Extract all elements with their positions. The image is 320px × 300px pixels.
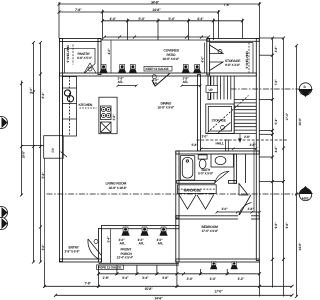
svg-text:3'-2": 3'-2" xyxy=(238,277,245,281)
porch post 2 xyxy=(140,227,148,236)
svg-text:3'-0": 3'-0" xyxy=(222,207,229,211)
right dim line 1 xyxy=(272,38,274,288)
svg-text:8'-4": 8'-4" xyxy=(41,92,45,99)
wardrobe box xyxy=(178,185,217,194)
dim row B xyxy=(59,11,219,13)
extension line right xyxy=(259,2,261,38)
svg-text:3'-8": 3'-8" xyxy=(274,46,278,53)
kitchen sink circles xyxy=(64,90,70,96)
svg-text:AFL: AFL xyxy=(120,242,126,246)
svg-text:9'-8" X 3'-8": 9'-8" X 3'-8" xyxy=(225,63,241,67)
ticks row D xyxy=(103,36,210,39)
entry door arc xyxy=(88,239,99,259)
island counter xyxy=(99,97,117,134)
svg-text:9'-8": 9'-8" xyxy=(274,222,278,229)
right dim line 2 xyxy=(283,38,285,297)
svg-text:KEEP 12 GAUGE: KEEP 12 GAUGE xyxy=(146,67,169,71)
svg-text:5'-4": 5'-4" xyxy=(107,236,111,243)
svg-text:34'-8": 34'-8" xyxy=(155,296,164,300)
patio door checkmark xyxy=(152,73,170,86)
svg-text:16'-8" X 9'-8": 16'-8" X 9'-8" xyxy=(158,106,175,110)
left marker 3 xyxy=(0,218,8,230)
bath south wall xyxy=(177,181,215,184)
ticks left dims xyxy=(20,82,23,197)
pantry shelving dashes xyxy=(72,45,74,65)
patio post 1 xyxy=(118,65,126,74)
stove box xyxy=(101,106,112,120)
counter divisions xyxy=(63,88,77,119)
pantry door label xyxy=(88,67,92,71)
svg-text:18'-8" X 8'-8": 18'-8" X 8'-8" xyxy=(163,57,180,61)
storage dim line left xyxy=(204,43,206,73)
burners xyxy=(101,107,105,111)
svg-text:3'-4": 3'-4" xyxy=(122,276,129,280)
porch inner dim line xyxy=(110,229,112,264)
ticks right dim1 xyxy=(271,37,274,261)
bath chase wall xyxy=(245,154,247,183)
svg-text:7'-8": 7'-8" xyxy=(75,8,82,12)
understair door circle xyxy=(221,126,225,130)
bifold doors xyxy=(179,195,214,209)
svg-text:34'-8": 34'-8" xyxy=(298,242,302,250)
left wall xyxy=(60,39,63,262)
stair right flight treads xyxy=(234,100,256,131)
svg-text:AFL: AFL xyxy=(183,80,189,84)
svg-text:7'-8": 7'-8" xyxy=(224,3,231,7)
stair dashed up line xyxy=(208,96,249,133)
bedroom window 2 xyxy=(231,262,238,270)
kitchen counter left xyxy=(63,77,77,137)
right leader y181 xyxy=(259,181,283,183)
svg-text:9'-0": 9'-0" xyxy=(29,87,33,94)
bath closet wall xyxy=(234,154,237,183)
extension line x213 xyxy=(213,19,215,41)
bedroom bottom wall xyxy=(176,259,259,262)
text keep gauge box xyxy=(144,66,172,71)
svg-text:AFL: AFL xyxy=(118,80,124,84)
oven box with X xyxy=(101,122,112,133)
vanity basin xyxy=(215,156,226,164)
porch post 1 xyxy=(121,227,129,236)
right leader y134 xyxy=(259,133,272,135)
kitchen arrow dashes xyxy=(80,107,97,109)
svg-text:26'-8": 26'-8" xyxy=(298,117,302,125)
extension line x188 xyxy=(188,19,190,41)
patio post 3 xyxy=(182,65,190,74)
svg-text:3'-0": 3'-0" xyxy=(202,135,209,139)
patio post 2 xyxy=(129,65,137,74)
svg-text:A302: A302 xyxy=(301,92,308,96)
svg-text:9'-8": 9'-8" xyxy=(285,222,289,229)
storage top wall xyxy=(207,39,259,42)
right leader y130 xyxy=(259,130,272,132)
left closet bump xyxy=(44,136,67,159)
ticks row B xyxy=(58,11,221,14)
svg-text:4'-0": 4'-0" xyxy=(201,56,205,63)
stair left wall xyxy=(208,76,211,100)
ticks right dim2 xyxy=(282,37,285,261)
storage inner lines xyxy=(210,43,253,74)
svg-text:9' SHELVING: 9' SHELVING xyxy=(66,45,70,63)
extension line x158 xyxy=(157,19,159,41)
bottom ext lines xyxy=(44,263,46,288)
bedroom door leaf xyxy=(239,195,251,217)
right leader y157 xyxy=(259,156,272,158)
tick marks top xyxy=(58,3,262,39)
stair top flight treads xyxy=(210,76,230,100)
bottom row 2 xyxy=(45,285,293,287)
ticks row A xyxy=(58,3,262,6)
svg-text:7'-8": 7'-8" xyxy=(85,282,92,286)
svg-text:KITCHEN: KITCHEN xyxy=(79,103,93,107)
bedroom dim ext line xyxy=(253,142,255,213)
closet leader line xyxy=(22,145,44,147)
porch post 3 xyxy=(159,227,167,236)
extension line x242 xyxy=(242,19,244,39)
svg-text:24'-8": 24'-8" xyxy=(153,8,162,12)
storage left wall xyxy=(207,39,210,75)
ticks bottom row2 xyxy=(43,285,294,288)
right top connector xyxy=(260,37,284,39)
bottom row 1 xyxy=(99,273,260,275)
dashdot line y89 xyxy=(231,88,300,90)
extension line left xyxy=(58,2,60,39)
post labels xyxy=(118,77,190,86)
stair inner wall xyxy=(233,76,235,134)
ticks right dim3 xyxy=(295,44,298,298)
bedroom window 1 xyxy=(210,262,217,270)
left dim line inner xyxy=(33,43,35,263)
patio post dim line left xyxy=(117,85,138,88)
chase door leaf xyxy=(239,184,248,196)
svg-text:5'-0" X 9'-8": 5'-0" X 9'-8" xyxy=(198,172,214,176)
patio top edge xyxy=(101,39,209,41)
svg-text:17'-0": 17'-0" xyxy=(285,112,289,120)
svg-text:5'-4": 5'-4" xyxy=(139,17,146,21)
vanity xyxy=(211,154,234,167)
ticks bottom row1 xyxy=(97,272,261,275)
dim row C xyxy=(103,20,243,22)
svg-text:LIVING ROOM: LIVING ROOM xyxy=(106,182,127,186)
svg-text:4'-0": 4'-0" xyxy=(107,48,111,55)
svg-text:15'-8": 15'-8" xyxy=(145,287,154,291)
pantry top wall xyxy=(60,39,102,42)
svg-text:17'-0" X 9'-8": 17'-0" X 9'-8" xyxy=(202,229,219,233)
bath left wall xyxy=(176,151,179,218)
svg-text:13'-4" X 5'-4": 13'-4" X 5'-4" xyxy=(117,256,134,260)
dim row A overall 34'-8" xyxy=(59,3,260,5)
svg-text:POPE 12 GAUGE: POPE 12 GAUGE xyxy=(98,266,121,270)
bottom row 3 xyxy=(56,294,293,296)
bottom-left wall xyxy=(60,259,102,262)
svg-text:1'-8": 1'-8" xyxy=(103,276,110,280)
hall/bath wall xyxy=(176,151,259,154)
text pope gauge box xyxy=(97,265,124,270)
left marker 2 xyxy=(0,207,8,219)
svg-text:2'-8": 2'-8" xyxy=(248,207,255,211)
svg-text:AFL: AFL xyxy=(153,82,159,86)
svg-text:A302: A302 xyxy=(302,197,309,201)
right leader y99 xyxy=(259,99,272,101)
wardrobe rod dash xyxy=(178,188,217,190)
right diamond marker A xyxy=(298,186,313,201)
svg-text:3'-8" X 6'-8": 3'-8" X 6'-8" xyxy=(65,250,81,254)
ticks bottom row3 xyxy=(54,294,294,297)
extension line x102 xyxy=(102,10,104,41)
storage door V xyxy=(210,45,223,71)
top dim texts xyxy=(75,1,230,21)
dashdot line y194 xyxy=(47,193,300,195)
svg-text:4'-4": 4'-4" xyxy=(197,17,204,21)
left marker 1 xyxy=(0,117,8,129)
svg-text:3'-8": 3'-8" xyxy=(162,276,169,280)
svg-text:7'-8": 7'-8" xyxy=(274,79,278,86)
hall dashed line xyxy=(197,139,289,141)
patio post 4 xyxy=(193,65,201,74)
svg-text:18'-8": 18'-8" xyxy=(22,150,26,158)
porch post labels xyxy=(119,238,164,246)
bath south wall right stub xyxy=(229,181,237,184)
svg-text:HALL: HALL xyxy=(216,142,224,146)
patio left dim line xyxy=(110,41,112,74)
svg-text:17'-0": 17'-0" xyxy=(215,290,224,294)
toilet bowl xyxy=(199,159,206,168)
svg-text:STORAGE: STORAGE xyxy=(212,119,226,123)
understair storage box xyxy=(206,104,234,134)
bedroom door arc xyxy=(239,203,252,217)
stair width arrow xyxy=(239,134,241,143)
bath door arc xyxy=(215,171,229,182)
understair door diagonal xyxy=(218,122,231,133)
porch bottom edge xyxy=(99,262,180,264)
counter dash centerline xyxy=(69,77,71,137)
dim row D patio xyxy=(105,36,209,38)
svg-text:6'-8" X 5'-0": 6'-8" X 5'-0" xyxy=(77,56,93,60)
burner dots xyxy=(103,109,110,117)
entry door leaf xyxy=(88,239,102,256)
svg-text:4'-8": 4'-8" xyxy=(274,146,278,153)
svg-text:3'-4": 3'-4" xyxy=(187,277,194,281)
extension line x127 xyxy=(127,19,129,41)
main top wall below patio xyxy=(60,73,257,76)
ticks row C xyxy=(101,19,244,22)
pantry right wall xyxy=(98,39,101,75)
right diamond marker B xyxy=(298,83,313,97)
svg-text:COVERED: COVERED xyxy=(164,49,180,53)
toilet tank xyxy=(198,155,207,159)
svg-text:9' SHELVING: 9' SHELVING xyxy=(245,51,249,69)
svg-text:3'-4": 3'-4" xyxy=(210,277,217,281)
svg-text:5'-4": 5'-4" xyxy=(169,17,176,21)
tub xyxy=(180,156,195,181)
living/porch wall xyxy=(102,226,180,229)
kitchen window xyxy=(99,65,107,74)
stair bottom edge xyxy=(206,133,256,135)
svg-text:AFL: AFL xyxy=(139,242,145,246)
bedroom left wall xyxy=(176,216,179,262)
hall dim line xyxy=(200,148,257,151)
svg-text:FRONT: FRONT xyxy=(121,248,133,252)
entry door circle xyxy=(94,240,98,244)
svg-text:34'-8": 34'-8" xyxy=(151,1,160,5)
storage door circle xyxy=(218,50,222,54)
left dim line outer xyxy=(21,81,23,196)
bedroom top dim line xyxy=(216,211,261,214)
svg-text:WARDROBE: WARDROBE xyxy=(184,189,201,193)
svg-text:2'-8": 2'-8" xyxy=(250,143,257,147)
svg-text:3'-4": 3'-4" xyxy=(142,276,149,280)
svg-text:2'-8": 2'-8" xyxy=(244,135,251,139)
svg-text:18'-8" X 18'-8": 18'-8" X 18'-8" xyxy=(109,186,128,190)
hall left wall xyxy=(198,75,201,152)
left dim line third xyxy=(40,43,42,263)
porch left wall xyxy=(99,229,102,263)
svg-text:4'-4": 4'-4" xyxy=(110,17,117,21)
UP label box xyxy=(206,86,218,93)
right leader y55 xyxy=(259,54,272,56)
patio post dim line right xyxy=(181,85,202,88)
patio door label circle xyxy=(152,75,156,79)
bedroom top wall xyxy=(176,216,259,219)
svg-text:AFL: AFL xyxy=(158,242,164,246)
hall door jamb xyxy=(226,140,229,151)
svg-text:2'-8": 2'-8" xyxy=(112,114,116,121)
bedroom door opening gap xyxy=(238,215,251,220)
closet ext line xyxy=(44,159,46,263)
pantry inner box xyxy=(65,48,96,73)
right wall xyxy=(256,39,259,261)
bath door leaf xyxy=(215,171,229,183)
storage shelf dash xyxy=(248,43,250,74)
svg-text:5'-4": 5'-4" xyxy=(274,118,278,125)
pantry corner door xyxy=(84,63,96,73)
svg-text:5'-8": 5'-8" xyxy=(192,143,199,147)
right dim line 3 xyxy=(296,46,298,297)
